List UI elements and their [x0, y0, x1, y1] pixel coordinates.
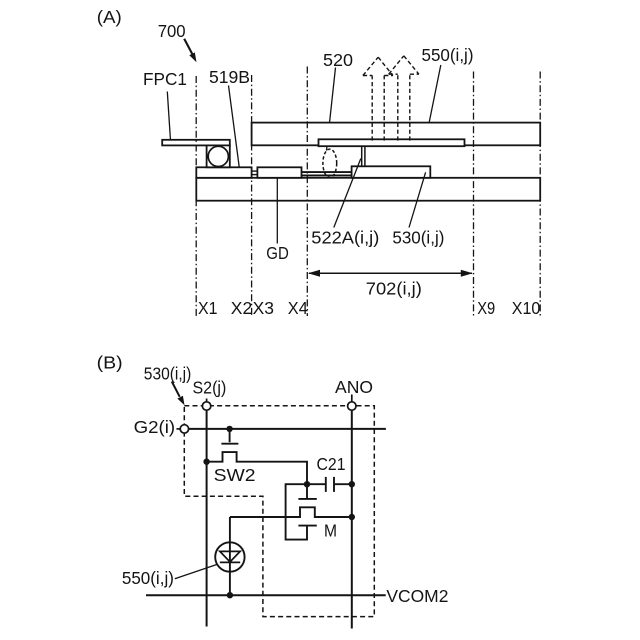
electrode bar 550 [319, 139, 465, 146]
dashed emission arrow 1 [363, 57, 393, 140]
VCOM2 line [146, 594, 386, 596]
svg-text:G2(i): G2(i) [134, 417, 176, 437]
svg-text:S2(j): S2(j) [193, 378, 227, 398]
svg-text:VCOM2: VCOM2 [386, 586, 448, 606]
G2 wire [189, 428, 386, 430]
arrow from 700 [184, 39, 196, 62]
svg-text:530(i,j): 530(i,j) [392, 227, 444, 247]
M top gate stub [306, 484, 308, 499]
svg-text:X10: X10 [512, 298, 541, 318]
ACF particle circle [208, 146, 228, 166]
ANO wire [351, 410, 353, 628]
LED cathode bar [220, 561, 240, 563]
leader 550(i,j) [425, 65, 441, 144]
SW2 channel path [207, 452, 307, 484]
svg-text:550(i,j): 550(i,j) [422, 45, 474, 65]
connector strip [252, 171, 258, 175]
top substrate [252, 123, 541, 146]
leader 550 circuit [175, 564, 218, 579]
transistor layer 530 [352, 166, 431, 178]
leader 530 [409, 172, 426, 227]
chain line X4 [306, 67, 308, 317]
G2 lead-in dash [177, 428, 181, 430]
LED triangle [220, 551, 240, 562]
svg-text:519B: 519B [209, 67, 250, 87]
svg-text:520: 520 [323, 50, 353, 70]
ACF box [207, 145, 230, 167]
svg-text:(B): (B) [97, 353, 123, 373]
node wire to C21 [307, 483, 325, 485]
svg-text:ANO: ANO [335, 377, 373, 397]
storage node junction dot [304, 481, 310, 487]
spacer wall [362, 146, 365, 166]
svg-text:X1: X1 [198, 298, 218, 318]
C21 wire to ANO [335, 483, 352, 485]
M top gate bar [298, 498, 316, 500]
G2 terminal circle [180, 425, 188, 433]
FPC bar [162, 140, 230, 146]
junction dot LED/VCOM2 [227, 592, 233, 598]
leader FPC1 [167, 92, 170, 141]
chain line X9 [473, 72, 475, 317]
leader 520 [327, 68, 336, 151]
arrow to dashed box [172, 382, 185, 406]
leader 522A [334, 159, 361, 228]
chain line X1 [195, 76, 197, 316]
leader GD [276, 179, 278, 244]
svg-text:550(i,j): 550(i,j) [122, 568, 174, 588]
svg-text:X3: X3 [253, 298, 274, 318]
GD driver chip [257, 167, 301, 178]
SW2 gate stub [229, 429, 231, 442]
light emitting region 520 dashed ellipse [323, 149, 337, 177]
wire M through LED to VCOM2 [229, 517, 231, 595]
junction dot C21/ANO [349, 481, 355, 487]
EL layer strip 522A [302, 172, 352, 175]
chain line X10 [539, 72, 541, 317]
dashed emission arrow 2 [389, 56, 419, 141]
ANO terminal stub [351, 395, 353, 402]
M bottom gate bar [298, 525, 316, 527]
capacitor C21 left plate [325, 477, 327, 492]
svg-text:702(i,j): 702(i,j) [366, 279, 422, 299]
S2 terminal circle [202, 402, 210, 410]
chain line X2/X3 [251, 75, 253, 316]
svg-text:700: 700 [158, 21, 186, 41]
svg-text:X9: X9 [477, 298, 495, 318]
S2 terminal stub [206, 399, 208, 402]
bottom substrate [196, 178, 540, 201]
svg-text:530(i,j): 530(i,j) [144, 364, 192, 384]
svg-text:FPC1: FPC1 [143, 69, 187, 89]
M channel path [230, 507, 352, 517]
svg-text:SW2: SW2 [214, 465, 256, 485]
svg-text:(A): (A) [97, 7, 122, 27]
svg-text:X4: X4 [288, 298, 308, 318]
dimension arrow 702(i,j) [308, 270, 473, 277]
svg-text:M: M [324, 520, 337, 540]
leader 519B [229, 86, 241, 174]
svg-text:X2: X2 [231, 298, 252, 318]
ANO terminal circle [348, 402, 356, 410]
S2 wire [206, 410, 208, 626]
terminal layer piece [196, 167, 251, 178]
svg-text:GD: GD [266, 243, 289, 263]
SW2 source junction dot [203, 459, 209, 465]
junction dot M/ANO [349, 514, 355, 520]
dashed pixel boundary box 530 [184, 406, 374, 617]
SW2 gate junction dot [226, 426, 232, 432]
svg-text:C21: C21 [317, 454, 346, 474]
transistor M gate loop [286, 484, 307, 539]
capacitor C21 right plate [333, 477, 335, 492]
LED 550 circle [215, 542, 244, 571]
svg-text:522A(i,j): 522A(i,j) [311, 227, 379, 247]
SW2 gate bar [221, 443, 238, 445]
